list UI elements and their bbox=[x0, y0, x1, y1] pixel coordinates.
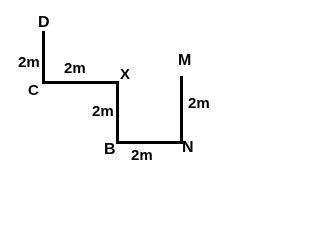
node D bbox=[38, 15, 50, 30]
wire N-M (vertical segment from N up to M) bbox=[180, 76, 183, 144]
value label 2m (segment B-N) bbox=[131, 148, 153, 163]
node C bbox=[28, 83, 39, 98]
value label 2m (segment D-C) bbox=[18, 55, 40, 70]
wire X-B (vertical segment from X down to B) bbox=[116, 81, 119, 144]
value label 2m (segment X-B) bbox=[92, 104, 114, 119]
node X bbox=[120, 67, 130, 82]
wire B-N (horizontal segment from B to N) bbox=[116, 141, 183, 144]
node B bbox=[104, 142, 116, 157]
value label 2m (segment N-M) bbox=[188, 96, 210, 111]
node N bbox=[182, 140, 194, 155]
value label 2m (segment C-X) bbox=[64, 61, 86, 76]
wire D-C (vertical segment from D down to C corner) bbox=[42, 31, 45, 84]
node M bbox=[178, 53, 191, 68]
wire C-X (horizontal segment from C to X) bbox=[42, 81, 119, 84]
